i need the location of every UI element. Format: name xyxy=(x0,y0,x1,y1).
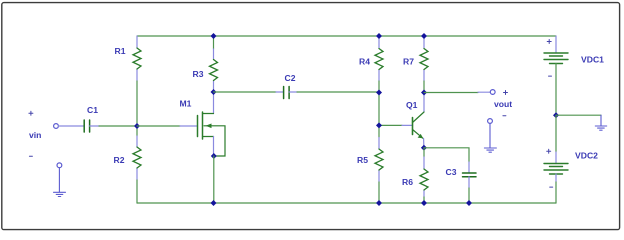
svg-text:vout: vout xyxy=(494,99,512,109)
svg-text:R6: R6 xyxy=(402,177,413,187)
svg-text:C3: C3 xyxy=(446,167,457,177)
wire M1 source to bottom rail xyxy=(213,156,215,203)
vout plus sign xyxy=(504,91,508,95)
battery VDC2 xyxy=(544,115,568,203)
VDC1 plus sign xyxy=(547,40,551,44)
svg-text:VDC2: VDC2 xyxy=(575,151,598,161)
wire R4 node to base node xyxy=(378,93,380,126)
wire top rail xyxy=(137,35,556,37)
node bottom rail M1 xyxy=(211,200,217,206)
svg-text:R4: R4 xyxy=(359,57,370,67)
node M1 source/bulk xyxy=(211,153,217,159)
resistor R5 xyxy=(375,125,383,203)
vin minus sign xyxy=(29,155,32,157)
node R7/collector/vout xyxy=(421,90,427,96)
svg-text:C1: C1 xyxy=(87,105,98,115)
resistor R6 xyxy=(420,148,428,203)
ground (supply midpoint) xyxy=(595,115,606,130)
resistor R1 xyxy=(133,36,141,126)
resistor R2 xyxy=(133,126,141,203)
vout minus sign xyxy=(503,115,506,117)
capacitor C2 xyxy=(214,87,380,99)
wire base xyxy=(379,124,402,126)
svg-text:R5: R5 xyxy=(357,155,368,165)
resistor R7 xyxy=(420,36,428,93)
svg-text:vin: vin xyxy=(29,130,41,140)
VDC1 minus sign xyxy=(549,75,552,77)
resistor R4 xyxy=(375,36,383,93)
svg-text:R1: R1 xyxy=(115,46,126,56)
wire vout xyxy=(424,92,478,94)
battery VDC1 xyxy=(544,36,568,115)
vout - terminal xyxy=(488,119,493,124)
wire emitter to C3 xyxy=(424,148,469,162)
ground (vin) xyxy=(54,168,66,197)
transistor Q1 (NPN) xyxy=(413,93,425,149)
vin - terminal xyxy=(57,163,62,168)
transistor M1 (NMOS) xyxy=(198,92,226,156)
node bottom rail C3 xyxy=(466,200,472,206)
node top rail R4 xyxy=(376,33,382,39)
node bottom rail R5 xyxy=(376,200,382,206)
wire to right ground xyxy=(556,114,601,116)
resistor R3 xyxy=(210,36,218,92)
node A (input divider node) xyxy=(134,123,140,129)
node Q1 emitter xyxy=(421,145,427,151)
vin + terminal xyxy=(54,124,59,129)
wire gate xyxy=(137,125,180,127)
svg-text:VDC1: VDC1 xyxy=(581,55,604,65)
wire bottom rail xyxy=(137,202,556,204)
node R3/M1 drain/C2 xyxy=(211,89,217,95)
node C2/R4 junction xyxy=(376,90,382,96)
node top rail R7 xyxy=(421,33,427,39)
node top rail R3 xyxy=(211,33,217,39)
svg-text:Q1: Q1 xyxy=(406,100,418,110)
svg-text:R7: R7 xyxy=(403,57,414,67)
svg-text:C2: C2 xyxy=(285,73,296,83)
node VDC1/VDC2/ground xyxy=(553,112,559,118)
capacitor C1 xyxy=(58,120,137,132)
capacitor C3 xyxy=(463,162,477,203)
vout + terminal xyxy=(490,90,495,95)
node bottom rail R6 xyxy=(421,200,427,206)
VDC2 plus sign xyxy=(547,149,551,153)
VDC2 minus sign xyxy=(550,186,553,188)
svg-text:M1: M1 xyxy=(180,99,192,109)
vin plus sign xyxy=(29,111,33,115)
node base junction xyxy=(376,122,382,128)
ground (vout) xyxy=(484,123,496,152)
svg-text:R2: R2 xyxy=(114,155,125,165)
svg-text:R3: R3 xyxy=(193,69,204,79)
